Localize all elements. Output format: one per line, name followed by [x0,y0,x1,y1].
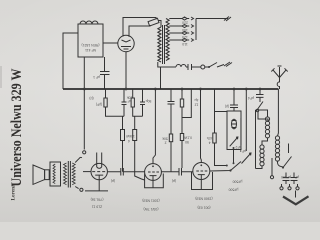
svg-text:50µ: 50µ [146,99,152,103]
svg-text:(03/1 7W): (03/1 7W) [144,207,159,211]
svg-text:(µF): (µF) [96,103,102,107]
svg-text:2: 2 [164,141,166,145]
svg-text:(µ): (µ) [225,105,229,109]
svg-text:12: 12 [195,103,199,107]
svg-text:NF 411: NF 411 [85,48,96,52]
svg-text:(1900 N3Ǝ): (1900 N3Ǝ) [195,197,212,201]
svg-text:(REN 1821): (REN 1821) [82,43,100,47]
svg-text:(1001 N3Ǝ): (1001 N3Ǝ) [142,199,159,203]
svg-text:ZL9 11: ZL9 11 [92,205,102,209]
svg-text:µF4: µF4 [248,96,254,100]
svg-text:µF: µF [242,149,246,153]
svg-text:Lorenz: Lorenz [11,184,17,200]
svg-text:47k: 47k [206,136,212,140]
svg-text:µF2: µF2 [235,145,241,149]
svg-text:(µ): (µ) [172,179,176,183]
svg-text:125: 125 [182,35,188,39]
svg-text:4µ: 4µ [195,98,199,102]
svg-text:10kW: 10kW [125,134,134,138]
svg-text:µF500: µF500 [281,175,291,179]
svg-text:4: 4 [208,141,210,145]
svg-text:0,1W: 0,1W [183,136,192,140]
svg-text:150: 150 [182,28,188,32]
svg-text:µF500: µF500 [233,180,243,184]
svg-text:µF: µF [295,175,299,179]
svg-text:(001 0Ǝ): (001 0Ǝ) [197,206,210,210]
svg-text:220: 220 [182,21,188,25]
svg-text:110: 110 [182,42,188,46]
svg-text:4: 4 [128,139,130,143]
svg-text:(Y6L 3a): (Y6L 3a) [91,198,104,202]
svg-text:Universo Nelwu 329 W: Universo Nelwu 329 W [9,69,25,187]
svg-text:(µ): (µ) [89,97,93,101]
svg-text:50k: 50k [162,137,168,141]
svg-text:µF500: µF500 [229,188,239,192]
svg-text:50: 50 [185,140,189,144]
svg-text:(µ): (µ) [111,179,115,183]
svg-text:10k: 10k [126,96,132,100]
svg-text:µF 1: µF 1 [93,75,100,79]
